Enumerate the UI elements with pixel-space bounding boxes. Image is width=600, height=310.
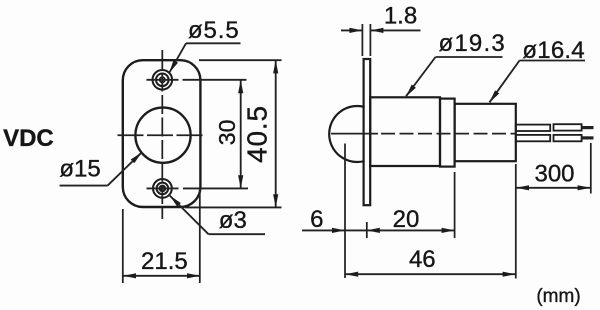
svg-text:20: 20 (393, 206, 420, 233)
svg-text:21.5: 21.5 (141, 248, 188, 275)
svg-text:ø15: ø15 (59, 155, 100, 182)
svg-text:ø19.3: ø19.3 (439, 30, 506, 57)
svg-text:1.8: 1.8 (384, 3, 417, 30)
svg-text:ø3: ø3 (219, 207, 247, 234)
svg-text:(mm): (mm) (536, 286, 580, 307)
svg-text:ø5.5: ø5.5 (188, 17, 240, 44)
svg-text:300: 300 (534, 161, 574, 188)
svg-text:6: 6 (310, 206, 323, 233)
svg-text:30: 30 (214, 120, 240, 146)
svg-text:VDC: VDC (3, 125, 54, 152)
svg-text:46: 46 (409, 246, 436, 273)
svg-text:40.5: 40.5 (242, 105, 273, 163)
